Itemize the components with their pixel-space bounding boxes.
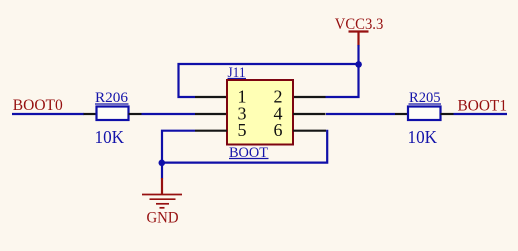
svg-text:10K: 10K xyxy=(95,127,125,147)
resistor R205 body xyxy=(408,107,441,121)
wire R205 to BOOT1 xyxy=(454,113,508,115)
resistor R206 body xyxy=(97,107,129,121)
wire junction to GND stub xyxy=(161,163,163,179)
svg-text:6: 6 xyxy=(274,120,283,140)
resistor R205 right pin xyxy=(441,113,454,115)
power port VCC3.3 stub xyxy=(357,32,359,46)
resistor R205 left pin xyxy=(395,113,408,115)
wire VCC stub to junction xyxy=(357,45,359,64)
wire net BOOT0 left segment xyxy=(12,113,84,115)
connector J11 designator underline xyxy=(228,78,247,80)
power port VCC3.3 bar xyxy=(349,30,369,32)
wire from R206 to pin 3 xyxy=(142,113,196,115)
connector pin 6 stub xyxy=(293,130,326,132)
connector pin 1 stub xyxy=(195,96,227,98)
ground symbol stub xyxy=(161,178,163,195)
connector pin 4 stub xyxy=(293,113,326,115)
wire pin 4 to R205 xyxy=(326,113,395,115)
ground bar 4 xyxy=(160,207,165,209)
svg-text:GND: GND xyxy=(147,210,179,227)
connector pin 2 stub xyxy=(293,96,326,98)
ground bar 1 xyxy=(142,194,182,196)
svg-text:10K: 10K xyxy=(408,127,438,147)
connector BOOT comment underline xyxy=(229,158,269,160)
connector pin 5 stub xyxy=(195,130,227,132)
ground bar 3 xyxy=(156,203,169,205)
connector pin 3 stub xyxy=(195,113,227,115)
resistor R206 designator underline xyxy=(95,103,129,105)
wire net pin5 / pin6 / GND loop xyxy=(162,130,327,163)
connector J11 body xyxy=(227,80,293,145)
ground bar 2 xyxy=(150,198,176,200)
junction at VCC node xyxy=(355,61,362,68)
resistor R206 right pin xyxy=(129,113,142,115)
svg-text:BOOT1: BOOT1 xyxy=(458,98,508,115)
junction at GND node xyxy=(159,160,166,167)
resistor R206 left pin xyxy=(84,113,97,115)
wire net pin1 to VCC junction (left loop, top run, right drop to pin 2) xyxy=(179,64,359,97)
svg-text:5: 5 xyxy=(238,120,247,140)
svg-text:BOOT0: BOOT0 xyxy=(13,97,63,114)
resistor R205 designator underline xyxy=(409,103,442,105)
